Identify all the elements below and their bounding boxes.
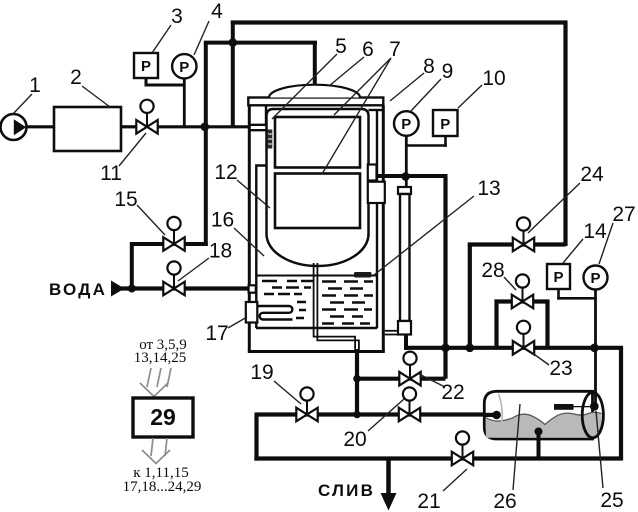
valve 18	[163, 261, 184, 295]
svg-text:28: 28	[481, 259, 504, 282]
leader 1	[12, 94, 32, 115]
heater flange 17	[246, 302, 257, 323]
valve 22	[399, 352, 420, 386]
manometer 27	[584, 266, 608, 290]
node: inlet dot in tank	[492, 411, 501, 420]
casing left wall	[248, 105, 251, 351]
manometer 9	[394, 111, 419, 136]
svg-text:ВОДА: ВОДА	[49, 280, 107, 299]
leader 24	[528, 183, 580, 233]
node: tank bottom dot	[535, 428, 543, 436]
svg-text:Р: Р	[141, 58, 151, 75]
svg-text:14: 14	[583, 220, 607, 243]
valve 15	[163, 217, 184, 251]
sensor on chamber left wall	[267, 130, 272, 149]
water level line in jacket	[257, 275, 378, 277]
node: steam branch junction on main line	[201, 123, 210, 132]
block 29 flow arrows bottom	[142, 438, 170, 464]
leader 11	[119, 133, 146, 166]
chamber outline	[267, 109, 369, 266]
svg-text:8: 8	[423, 55, 435, 78]
svg-text:Р: Р	[553, 269, 563, 286]
wire: branch up from main line to dome feed	[204, 43, 208, 245]
svg-text:13,14,25: 13,14,25	[134, 350, 187, 366]
block 29	[133, 398, 193, 437]
chamber window upper	[275, 117, 360, 168]
node: junction on pipe at gauge line	[401, 172, 410, 181]
water dashes	[262, 281, 373, 324]
tank 26 body	[484, 391, 592, 439]
svg-text:17,18...24,29: 17,18...24,29	[123, 479, 202, 495]
wire: water inlet line	[121, 286, 251, 290]
leader 26	[513, 404, 520, 490]
water level gauge column	[400, 194, 410, 321]
leader 7a	[334, 58, 391, 115]
valve 11	[136, 100, 157, 134]
leader 22	[417, 373, 445, 387]
wire: bypass loop of valve 28	[497, 302, 548, 348]
wire: left drop to bottom line	[254, 413, 258, 461]
wire: main line pump to filter	[24, 125, 56, 128]
svg-text:18: 18	[209, 240, 232, 263]
valve 23	[513, 321, 534, 355]
node: junction header/valve24 vertical	[466, 344, 475, 353]
pressure switch box 3	[134, 53, 158, 78]
leader 5	[272, 54, 337, 119]
wire: gauge 14/27 sense line	[557, 289, 595, 406]
leader 10	[458, 85, 482, 108]
vessel lid bar	[248, 98, 383, 106]
wire: filter to valve 11	[121, 125, 137, 128]
leader 19	[274, 381, 301, 404]
leader 7b	[322, 58, 391, 174]
svg-text:10: 10	[482, 67, 505, 90]
svg-text:1: 1	[29, 74, 41, 97]
svg-text:СЛИВ: СЛИВ	[318, 481, 375, 500]
tank water fill	[486, 412, 602, 437]
jacket inner left wall	[256, 166, 266, 329]
wire: thick pipe from chamber to right vertical	[377, 174, 448, 178]
svg-text:22: 22	[441, 381, 464, 404]
drain arrow СЛИВ	[381, 459, 397, 511]
svg-text:16: 16	[211, 209, 234, 232]
svg-text:9: 9	[442, 60, 454, 83]
wire: branch up to top line	[231, 21, 235, 127]
wire: right vertical from top line to valve 24	[563, 23, 567, 247]
steam port lines top left	[249, 105, 266, 130]
leader 8	[390, 73, 424, 101]
leader 27	[599, 223, 613, 264]
svg-text:21: 21	[417, 490, 440, 512]
wire: valve 15 branch line	[132, 243, 206, 289]
takeoff fitting lower on chamber right wall	[368, 182, 385, 203]
wire: right vertical down to valve 22 line	[443, 177, 447, 379]
svg-text:11: 11	[100, 162, 122, 185]
level sensor 13 in jacket	[354, 272, 372, 278]
chamber window lower	[275, 174, 360, 229]
wire: bottom drain line	[254, 456, 623, 460]
leader 13	[374, 196, 474, 275]
leader 20	[368, 399, 404, 431]
wire: gauge sense line to manometer 3/4	[145, 78, 185, 127]
valve 20	[399, 387, 420, 421]
stub from casing to column bottom	[385, 331, 398, 335]
manometer 4	[172, 54, 196, 78]
pump 1	[1, 114, 27, 140]
takeoff fitting upper on chamber right wall	[368, 165, 377, 181]
svg-text:Р: Р	[590, 270, 600, 287]
svg-text:25: 25	[600, 489, 623, 512]
wire: column bottom down to drain header	[404, 335, 408, 351]
svg-text:3: 3	[171, 5, 183, 28]
svg-text:26: 26	[493, 490, 516, 512]
heater element coil	[257, 306, 292, 320]
leader 2	[82, 86, 110, 107]
valve 28	[512, 274, 533, 308]
leader 4	[194, 21, 209, 55]
leader 14	[563, 239, 583, 263]
tank left inner arc	[499, 394, 503, 437]
svg-text:12: 12	[214, 161, 237, 184]
svg-text:Р: Р	[179, 59, 189, 76]
chamber drain tube (thin double line)	[314, 263, 359, 351]
wire: right edge vertical	[619, 348, 623, 459]
svg-text:Р: Р	[440, 116, 450, 133]
svg-text:15: 15	[114, 188, 137, 211]
svg-text:23: 23	[549, 357, 572, 380]
leader 6	[329, 57, 364, 86]
svg-text:13: 13	[477, 177, 500, 200]
svg-text:19: 19	[250, 361, 273, 384]
svg-text:4: 4	[211, 0, 223, 23]
svg-text:27: 27	[612, 203, 635, 226]
vessel dome	[269, 85, 360, 98]
wire: pipe down into dome	[313, 43, 317, 92]
node: junction header/gauge line	[590, 344, 599, 353]
jacket inner right wall	[376, 110, 378, 328]
water inlet arrow	[111, 281, 125, 297]
pressure switch box 14	[547, 264, 570, 289]
node: drain/valve22 junction	[353, 375, 361, 383]
wire: valve 24 line	[468, 242, 566, 246]
svg-text:Р: Р	[401, 116, 411, 133]
wire: dome feed horizontal	[204, 41, 317, 45]
svg-text:24: 24	[580, 163, 604, 186]
wire: tank bottom drain	[537, 432, 541, 459]
casing bottom	[248, 350, 385, 353]
svg-text:20: 20	[343, 428, 366, 451]
wire: valve 24 left vertical	[468, 245, 472, 348]
svg-text:6: 6	[362, 38, 374, 61]
leader 17	[228, 317, 247, 328]
valve 21	[452, 431, 473, 465]
water level gauge column top cap	[398, 187, 411, 194]
jacket bottom	[256, 327, 377, 330]
tank right end cap	[582, 392, 603, 437]
leader 3	[152, 25, 171, 53]
leader 21	[443, 469, 467, 491]
node: drain/valve20 junction	[353, 411, 361, 419]
svg-text:5: 5	[335, 35, 347, 58]
wire: drain header y=348	[404, 346, 623, 350]
wire: valve 11 to vessel	[157, 125, 250, 128]
wire: pipe into tank	[483, 413, 497, 417]
leader 15	[137, 205, 165, 235]
block 29 flow arrows top	[140, 368, 171, 397]
svg-text:7: 7	[389, 38, 401, 61]
valve 24	[513, 217, 534, 251]
leader 16	[234, 228, 264, 256]
pressure switch box 10	[433, 110, 458, 136]
node: junction header/valve22 vertical	[441, 344, 450, 353]
leader 28	[504, 277, 516, 290]
wire: valves 19/20 line	[257, 412, 497, 416]
svg-text:2: 2	[70, 66, 82, 89]
wire: vessel drain thick	[355, 349, 359, 416]
svg-text:29: 29	[150, 404, 176, 430]
wire: valve 22 line	[357, 377, 446, 381]
node: tank right sense dot	[590, 402, 599, 411]
leader 18	[178, 258, 209, 281]
node: dome branch junction	[229, 38, 238, 47]
wire: gauge 9/10 sense line	[405, 136, 447, 187]
leader 25	[596, 411, 603, 488]
node: water line junction	[128, 285, 136, 293]
leader 9	[410, 79, 441, 112]
tank level device	[554, 404, 591, 410]
valve 19	[296, 387, 317, 421]
wire: top line across	[231, 20, 568, 24]
svg-text:17: 17	[205, 322, 228, 345]
jacket right top jog	[369, 109, 384, 111]
water level gauge column bottom cap	[398, 321, 411, 335]
filter box 2	[54, 107, 121, 151]
leader 12	[237, 180, 270, 208]
water inlet port on casing	[249, 285, 256, 292]
casing right wall	[382, 105, 385, 351]
leader 23	[531, 352, 549, 365]
